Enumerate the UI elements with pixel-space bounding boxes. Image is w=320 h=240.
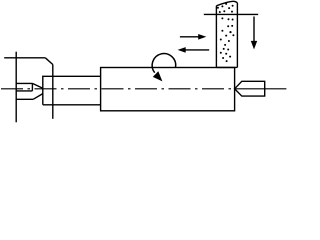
center cone diagonal: [32, 83, 42, 88]
wheel abrasive dots: [217, 3, 235, 62]
plate chamfer: [45, 58, 53, 65]
centerline (dash-dot axis): [1, 88, 252, 90]
center body bottom edge: [16, 90, 32, 92]
infeed down arrow: [253, 17, 255, 43]
traverse arrow right: [180, 36, 199, 38]
center base vertical: [31, 83, 33, 91]
faceplate vertical line: [15, 52, 17, 123]
workpiece large cylinder: [101, 68, 235, 111]
grinding wheel bottom edge: [216, 66, 237, 68]
plate top edge: [4, 57, 45, 59]
small shaft journal rectangle: [43, 76, 101, 105]
plate right edge: [52, 65, 54, 119]
dog diagonal: [33, 94, 43, 100]
wheel spindle line: [204, 13, 258, 15]
grinding wheel right edge: [236, 3, 238, 68]
grinding wheel left edge: [215, 6, 217, 68]
workpiece rotation arrow: [152, 54, 176, 73]
center body top edge: [16, 82, 32, 84]
tailstock dead center: [235, 81, 265, 96]
dog bottom edge: [16, 98, 33, 100]
traverse arrow left: [185, 49, 209, 51]
grinding wheel top (freehand): [216, 1, 237, 6]
